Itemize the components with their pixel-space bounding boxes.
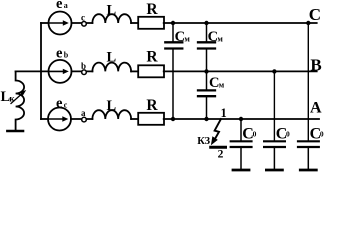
source eb	[49, 60, 72, 83]
svg-text:C: C	[309, 5, 321, 24]
wire: neutral to Lk coil horizontal	[16, 70, 49, 72]
svg-text:b: b	[81, 61, 86, 71]
svg-text:A: A	[310, 100, 322, 117]
svg-text:e: e	[56, 95, 63, 111]
inductor Lk (Petersen coil) vertical with 3 humps	[16, 71, 25, 129]
svg-text:L: L	[107, 50, 117, 66]
inductor L row2	[92, 63, 131, 72]
svg-text:0: 0	[253, 130, 257, 139]
svg-text:c: c	[64, 100, 68, 109]
svg-text:e: e	[56, 0, 63, 12]
wire: C-A branch lower (crosses line B, no join)	[172, 50, 174, 119]
svg-text:L: L	[107, 2, 117, 18]
capacitor C0 phase A branch	[240, 119, 242, 140]
ground bar under Lk	[7, 130, 23, 133]
svg-text:L: L	[107, 98, 117, 114]
C0 C ground bar	[300, 169, 316, 172]
svg-text:КЗ: КЗ	[197, 136, 210, 147]
C0 B ground bar	[266, 169, 282, 172]
svg-text:a: a	[64, 1, 68, 10]
junction node: line B / C0-B branch	[272, 69, 276, 73]
junction node: line A / B-A branch	[204, 117, 208, 121]
capacitor C0 phase C branch (crosses lines B and A, no join)	[307, 23, 309, 140]
svg-text:1: 1	[221, 106, 227, 120]
wire	[131, 118, 138, 120]
wire: ea to node c	[72, 22, 93, 24]
svg-text:B: B	[310, 55, 321, 74]
wire: bottom row bus corner to source ec	[41, 118, 48, 120]
wire: ec to node a	[71, 118, 92, 120]
capacitor Cm (B-A branch) wire	[206, 71, 208, 89]
capacitor Cm C-A plates	[165, 41, 182, 43]
junction node: line C / C-A branch	[171, 21, 175, 25]
wire: line A	[164, 118, 319, 120]
resistor R row1	[138, 17, 164, 29]
svg-text:0: 0	[320, 130, 324, 139]
junction node: line C / C-B branch	[204, 21, 208, 25]
wire	[131, 70, 138, 72]
capacitor Cm (C-B branch) wire	[206, 23, 208, 41]
svg-text:c: c	[81, 12, 85, 22]
wire: line B	[164, 70, 317, 72]
node b terminal	[82, 70, 87, 75]
svg-text:м: м	[184, 34, 190, 43]
capacitor C0 phase B branch (crosses line A, no join)	[273, 71, 275, 140]
svg-text:a: a	[81, 108, 86, 118]
junction node: line C / C0-C branch	[306, 21, 310, 25]
arrow across Lk (adjustable)	[11, 93, 23, 103]
wire: top row from bus to source ea	[41, 22, 49, 24]
capacitor Cm (C-A branch) upper section wire	[172, 23, 174, 41]
capacitor Cm C-B plates	[198, 41, 215, 43]
wire	[131, 22, 138, 24]
inductor L row1	[92, 14, 131, 23]
svg-text:R: R	[146, 97, 158, 114]
wire: eb to node b	[72, 70, 93, 72]
node a terminal	[82, 117, 87, 122]
junction node: line A / C-A branch	[171, 117, 175, 121]
wire: left neutral bus vertical	[40, 23, 42, 119]
capacitor Cm B-A plates	[198, 89, 215, 91]
svg-text:0: 0	[286, 130, 290, 139]
fault ground bar	[211, 146, 226, 149]
inductor L row3	[92, 110, 131, 119]
junction node: line B / C-B branch	[204, 69, 208, 73]
svg-text:R: R	[146, 1, 158, 18]
svg-text:к: к	[9, 94, 15, 104]
svg-text:2: 2	[218, 148, 224, 160]
svg-text:b: b	[64, 51, 69, 60]
node c terminal	[82, 22, 87, 27]
source ec	[48, 108, 71, 131]
resistor R row3	[138, 113, 164, 125]
svg-text:e: e	[56, 46, 63, 62]
wire: line C	[164, 22, 317, 24]
svg-text:R: R	[146, 49, 158, 66]
resistor R row2	[138, 65, 164, 77]
source ea	[49, 12, 72, 35]
svg-text:м: м	[217, 34, 223, 43]
fault lightning bolt KZ	[215, 119, 221, 139]
C0 A ground bar	[233, 169, 249, 172]
svg-text:м: м	[219, 80, 225, 89]
junction node: line A / C0-A branch	[239, 117, 243, 121]
